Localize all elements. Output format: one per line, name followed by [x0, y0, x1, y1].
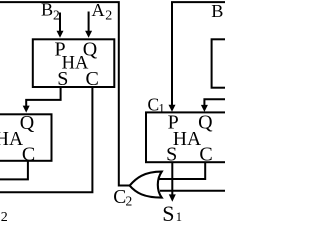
svg-text:1: 1: [176, 210, 182, 224]
wire A2 arrow: [88, 12, 90, 32]
wire S of U4 to Q of U3: [204, 99, 225, 106]
svg-text:2: 2: [1, 210, 8, 225]
svg-text:A: A: [92, 0, 105, 20]
svg-text:C: C: [113, 187, 126, 208]
svg-text:2: 2: [53, 7, 60, 22]
svg-text:2: 2: [126, 193, 133, 208]
wire C of U2 exiting left: [0, 161, 28, 179]
half-adder U1 (top-left HA): [33, 39, 115, 87]
wire C1 top rail right cell with arrow into P of U3: [172, 2, 225, 106]
svg-text:S: S: [0, 143, 1, 165]
wire S of U1 to Q of U2: [26, 88, 60, 106]
half-adder U2 (lower-left HA, cut at left edge): [0, 114, 52, 161]
or-gate G1 (left-facing) output C2: [130, 172, 162, 198]
half-adder U4 (top-right HA, cut at right edge): [212, 39, 244, 87]
svg-text:B: B: [41, 0, 53, 20]
half-adder U3 (right HA): [146, 112, 231, 162]
svg-text:C: C: [148, 94, 160, 114]
svg-text:S: S: [57, 68, 68, 90]
wire C of U3 to OR gate upper input: [159, 162, 205, 179]
wire S1 output arrow: [171, 162, 173, 195]
svg-text:2: 2: [105, 8, 112, 23]
wire OR gate lower input from off-screen right: [160, 190, 225, 192]
wire carry C2 top rail left cell: [0, 2, 130, 185]
wire B2 arrow: [59, 13, 61, 32]
svg-text:S: S: [162, 201, 174, 225]
svg-text:HA: HA: [0, 129, 23, 150]
svg-text:B: B: [211, 1, 223, 21]
wire C of U1 exiting left: [0, 88, 92, 192]
svg-text:C: C: [86, 68, 99, 90]
